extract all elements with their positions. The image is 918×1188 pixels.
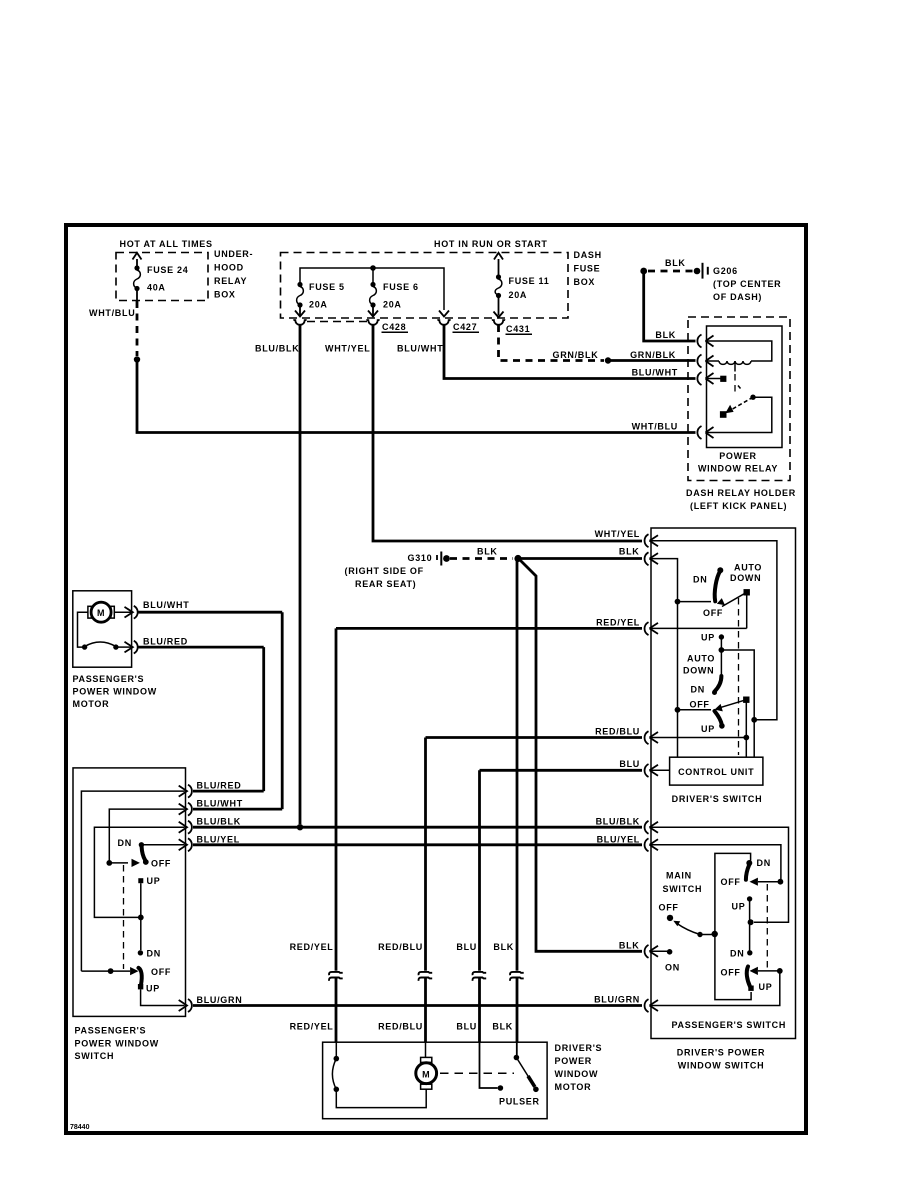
- svg-text:REAR SEAT): REAR SEAT): [355, 579, 416, 589]
- svg-text:POWER: POWER: [555, 1056, 593, 1066]
- svg-text:UP: UP: [732, 902, 746, 912]
- svg-text:AUTO: AUTO: [687, 654, 715, 664]
- svg-text:BOX: BOX: [214, 290, 236, 300]
- svg-text:OFF: OFF: [703, 608, 723, 618]
- svg-text:BLU/RED: BLU/RED: [197, 781, 242, 791]
- svg-text:BLK: BLK: [655, 330, 676, 340]
- svg-text:POWER WINDOW: POWER WINDOW: [75, 1039, 159, 1049]
- svg-text:GRN/BLK: GRN/BLK: [630, 350, 676, 360]
- svg-text:BLU/WHT: BLU/WHT: [632, 368, 678, 378]
- svg-text:OFF: OFF: [151, 967, 171, 977]
- svg-text:OF DASH): OF DASH): [713, 292, 762, 302]
- svg-text:BLK: BLK: [492, 1022, 513, 1032]
- svg-text:BOX: BOX: [574, 277, 596, 287]
- svg-text:BLU/RED: BLU/RED: [143, 637, 188, 647]
- svg-text:UP: UP: [146, 984, 160, 994]
- svg-text:RED/BLU: RED/BLU: [595, 727, 640, 737]
- svg-text:DRIVER'S: DRIVER'S: [555, 1043, 603, 1053]
- svg-text:DRIVER'S SWITCH: DRIVER'S SWITCH: [672, 794, 763, 804]
- svg-text:POWER: POWER: [719, 451, 757, 461]
- svg-text:DRIVER'S POWER: DRIVER'S POWER: [677, 1048, 765, 1058]
- svg-text:WHT/BLU: WHT/BLU: [89, 308, 135, 318]
- svg-text:UNDER-: UNDER-: [214, 249, 253, 259]
- svg-text:HOT IN RUN OR START: HOT IN RUN OR START: [434, 239, 548, 249]
- svg-text:C428: C428: [382, 322, 406, 332]
- svg-text:RED/YEL: RED/YEL: [290, 942, 334, 952]
- svg-text:MOTOR: MOTOR: [555, 1082, 592, 1092]
- svg-text:MAIN: MAIN: [666, 871, 692, 881]
- svg-text:BLU/WHT: BLU/WHT: [397, 344, 443, 354]
- svg-text:UP: UP: [147, 876, 161, 886]
- svg-text:BLK: BLK: [477, 547, 498, 557]
- svg-text:(LEFT KICK PANEL): (LEFT KICK PANEL): [690, 501, 787, 511]
- svg-text:OFF: OFF: [659, 903, 679, 913]
- svg-text:C427: C427: [453, 322, 477, 332]
- svg-text:DN: DN: [147, 949, 161, 959]
- svg-text:PULSER: PULSER: [499, 1097, 540, 1107]
- svg-text:RED/YEL: RED/YEL: [596, 618, 640, 628]
- svg-text:(RIGHT SIDE OF: (RIGHT SIDE OF: [345, 566, 424, 576]
- svg-text:DN: DN: [730, 949, 744, 959]
- svg-text:BLU: BLU: [456, 1022, 477, 1032]
- svg-text:M: M: [422, 1070, 430, 1080]
- svg-text:FUSE 11: FUSE 11: [509, 276, 550, 286]
- svg-text:WHT/BLU: WHT/BLU: [632, 422, 678, 432]
- svg-text:BLK: BLK: [493, 942, 514, 952]
- svg-text:BLK: BLK: [665, 258, 686, 268]
- svg-text:MOTOR: MOTOR: [73, 699, 110, 709]
- svg-text:WINDOW: WINDOW: [555, 1069, 599, 1079]
- svg-text:PASSENGER'S: PASSENGER'S: [75, 1026, 147, 1036]
- svg-text:AUTO: AUTO: [734, 563, 762, 573]
- svg-text:GRN/BLK: GRN/BLK: [553, 350, 599, 360]
- svg-text:FUSE 6: FUSE 6: [383, 282, 419, 292]
- svg-text:BLU/YEL: BLU/YEL: [597, 834, 640, 844]
- svg-text:PASSENGER'S SWITCH: PASSENGER'S SWITCH: [672, 1020, 787, 1030]
- svg-text:WINDOW RELAY: WINDOW RELAY: [698, 463, 778, 473]
- svg-text:DN: DN: [757, 858, 771, 868]
- svg-text:WHT/YEL: WHT/YEL: [595, 529, 640, 539]
- svg-text:OFF: OFF: [721, 968, 741, 978]
- svg-text:RED/BLU: RED/BLU: [378, 942, 423, 952]
- svg-text:FUSE 5: FUSE 5: [309, 282, 345, 292]
- svg-text:BLU/GRN: BLU/GRN: [197, 995, 243, 1005]
- svg-text:G310: G310: [408, 553, 433, 563]
- svg-text:DN: DN: [691, 685, 705, 695]
- svg-text:RED/BLU: RED/BLU: [378, 1022, 423, 1032]
- svg-text:FUSE 24: FUSE 24: [147, 265, 188, 275]
- svg-text:UP: UP: [759, 982, 773, 992]
- svg-text:BLU: BLU: [456, 942, 477, 952]
- svg-text:UP: UP: [701, 633, 715, 643]
- svg-text:DN: DN: [118, 838, 132, 848]
- svg-text:DASH RELAY HOLDER: DASH RELAY HOLDER: [686, 488, 796, 498]
- svg-text:HOOD: HOOD: [214, 263, 244, 273]
- svg-text:DOWN: DOWN: [683, 666, 714, 676]
- svg-text:BLU/BLK: BLU/BLK: [596, 817, 640, 827]
- svg-text:BLU/BLK: BLU/BLK: [197, 817, 241, 827]
- svg-text:G206: G206: [713, 266, 738, 276]
- svg-text:WINDOW SWITCH: WINDOW SWITCH: [678, 1061, 765, 1071]
- svg-text:BLU: BLU: [619, 759, 640, 769]
- svg-text:78440: 78440: [70, 1124, 90, 1131]
- svg-text:BLU/BLK: BLU/BLK: [255, 344, 299, 354]
- svg-text:WHT/YEL: WHT/YEL: [325, 344, 370, 354]
- svg-text:DN: DN: [693, 575, 707, 585]
- svg-text:BLU/WHT: BLU/WHT: [143, 600, 189, 610]
- svg-text:BLU/WHT: BLU/WHT: [197, 799, 243, 809]
- svg-text:20A: 20A: [309, 300, 328, 310]
- svg-text:20A: 20A: [383, 300, 402, 310]
- svg-text:DOWN: DOWN: [730, 573, 761, 583]
- svg-text:RED/YEL: RED/YEL: [290, 1022, 334, 1032]
- svg-text:40A: 40A: [147, 283, 166, 293]
- svg-text:HOT AT ALL TIMES: HOT AT ALL TIMES: [120, 239, 213, 249]
- svg-text:OFF: OFF: [721, 877, 741, 887]
- svg-text:FUSE: FUSE: [574, 264, 601, 274]
- svg-text:POWER WINDOW: POWER WINDOW: [73, 687, 157, 697]
- svg-text:SWITCH: SWITCH: [75, 1051, 115, 1061]
- svg-text:OFF: OFF: [690, 700, 710, 710]
- svg-text:BLU/GRN: BLU/GRN: [594, 995, 640, 1005]
- svg-text:UP: UP: [701, 724, 715, 734]
- svg-text:20A: 20A: [509, 290, 528, 300]
- svg-text:BLK: BLK: [619, 547, 640, 557]
- svg-text:SWITCH: SWITCH: [663, 884, 703, 894]
- svg-text:PASSENGER'S: PASSENGER'S: [73, 674, 145, 684]
- svg-text:DASH: DASH: [574, 250, 602, 260]
- svg-text:BLK: BLK: [619, 941, 640, 951]
- svg-text:CONTROL UNIT: CONTROL UNIT: [678, 767, 754, 777]
- svg-text:ON: ON: [665, 963, 680, 973]
- svg-text:C431: C431: [506, 324, 530, 334]
- svg-text:RELAY: RELAY: [214, 276, 247, 286]
- svg-text:OFF: OFF: [151, 859, 171, 869]
- svg-text:(TOP CENTER: (TOP CENTER: [713, 279, 781, 289]
- svg-text:M: M: [97, 608, 105, 618]
- svg-text:BLU/YEL: BLU/YEL: [197, 834, 240, 844]
